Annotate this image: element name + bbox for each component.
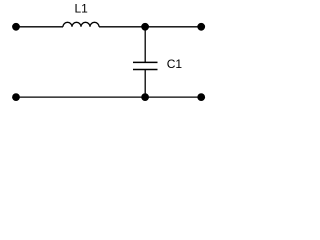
svg-text:C1: C1: [167, 57, 183, 71]
svg-text:L1: L1: [75, 2, 89, 16]
